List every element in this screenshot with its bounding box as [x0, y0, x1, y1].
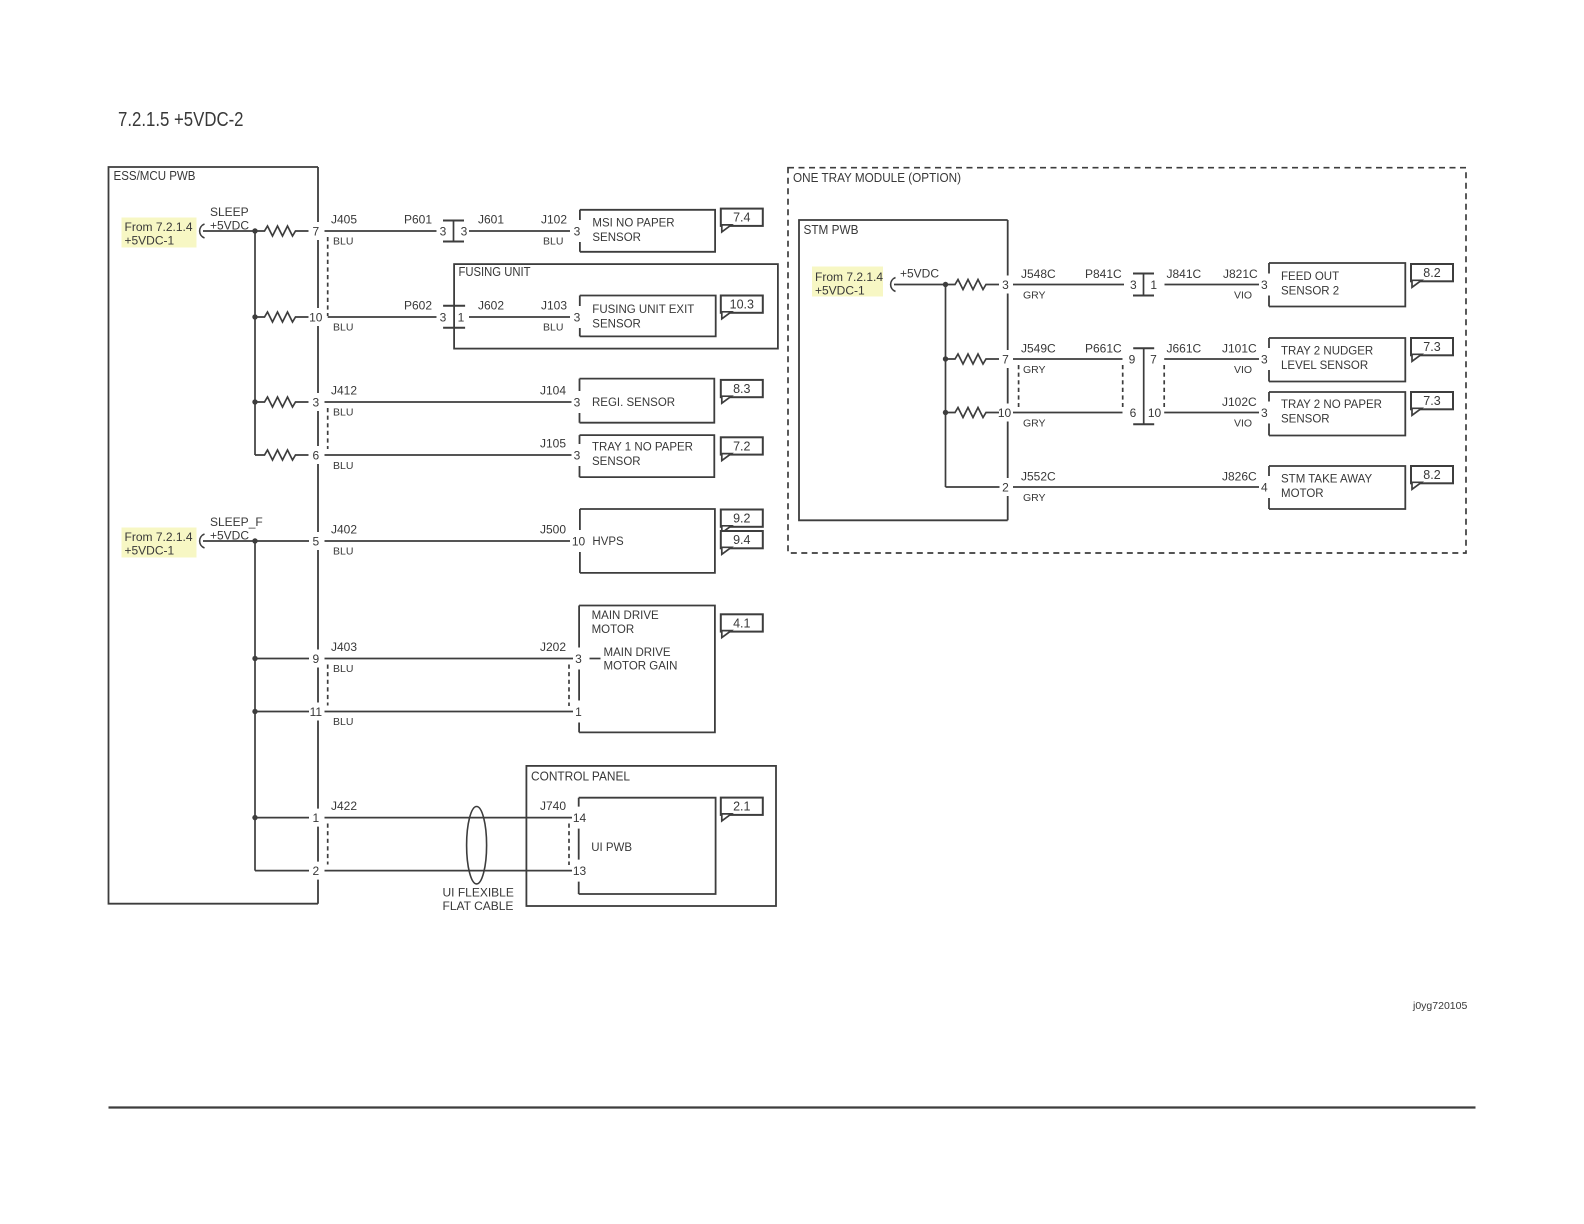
- TRAY 2 NO PAPER SENSOR box: [1269, 392, 1405, 436]
- svg-text:3: 3: [574, 448, 581, 462]
- svg-text:TRAY 2 NO PAPER: TRAY 2 NO PAPER: [1281, 399, 1382, 411]
- svg-text:2.1: 2.1: [733, 800, 750, 814]
- svg-text:SENSOR: SENSOR: [592, 232, 641, 244]
- svg-text:j0yg720105: j0yg720105: [1412, 1000, 1467, 1012]
- svg-text:TRAY 2 NUDGER: TRAY 2 NUDGER: [1281, 346, 1373, 358]
- svg-text:UI PWB: UI PWB: [591, 842, 632, 854]
- wire J403 to J202 pin3: [325, 658, 574, 660]
- junction node row10: [252, 314, 257, 319]
- svg-text:7.4: 7.4: [733, 211, 750, 225]
- svg-text:GRY: GRY: [1023, 364, 1046, 376]
- svg-text:MOTOR: MOTOR: [592, 624, 635, 636]
- resistor row pin7: [255, 226, 309, 236]
- svg-text:7: 7: [1150, 352, 1157, 366]
- cable dashed J549C right: [1122, 365, 1124, 407]
- svg-text:3: 3: [440, 310, 447, 324]
- wire STM feed: [894, 284, 946, 286]
- svg-text:3: 3: [574, 395, 581, 409]
- svg-text:J104: J104: [540, 384, 566, 398]
- highlight From 7.2.1.4 +5VDC-1 (right): [812, 267, 883, 297]
- svg-text:10: 10: [998, 406, 1012, 420]
- svg-text:7.2: 7.2: [733, 439, 750, 453]
- svg-text:3: 3: [440, 224, 447, 238]
- svg-text:3: 3: [1261, 406, 1268, 420]
- reference flag 7.4: [721, 209, 763, 226]
- TRAY 1 NO PAPER SENSOR box: [580, 435, 715, 477]
- svg-text:10.3: 10.3: [730, 298, 754, 312]
- highlight From 7.2.1.4 +5VDC-1 (middle): [122, 528, 197, 558]
- svg-text:9: 9: [1129, 352, 1136, 366]
- svg-text:J403: J403: [331, 640, 357, 654]
- wire trunk corner to pin2: [255, 870, 309, 872]
- junction node STM row10: [943, 410, 948, 415]
- svg-text:P602: P602: [404, 299, 432, 313]
- wire J402 to J500: [325, 540, 571, 542]
- svg-text:FUSING UNIT: FUSING UNIT: [459, 265, 531, 279]
- MSI NO PAPER SENSOR box: [580, 210, 715, 252]
- FUSING UNIT EXIT SENSOR box: [580, 296, 716, 337]
- svg-text:P601: P601: [404, 213, 432, 227]
- cable dashed J403 left: [327, 665, 329, 706]
- svg-text:3: 3: [1130, 278, 1137, 292]
- ONE TRAY MODULE (OPTION) dashed box: [788, 168, 1466, 553]
- svg-text:6: 6: [1130, 406, 1137, 420]
- CONTROL PANEL box: [526, 766, 776, 906]
- off-page hook (STM +5VDC): [891, 278, 896, 292]
- svg-text:J661C: J661C: [1167, 342, 1202, 356]
- svg-text:J602: J602: [478, 299, 504, 313]
- svg-text:GRY: GRY: [1023, 290, 1046, 302]
- svg-text:9.4: 9.4: [733, 533, 750, 547]
- trunk wire vertical STM: [945, 285, 947, 488]
- resistor STM row pin7: [946, 354, 1000, 364]
- wire J661C to J101C: [1164, 358, 1259, 360]
- off-page hook (SLEEP +5VDC): [200, 224, 205, 238]
- reference flag 9.4: [721, 531, 763, 548]
- ESS/MCU PWB box: [109, 167, 319, 904]
- svg-text:J101C: J101C: [1222, 342, 1257, 356]
- wire pin2 to J740 pin13: [325, 870, 573, 872]
- svg-text:2: 2: [1002, 480, 1009, 494]
- svg-text:J402: J402: [331, 523, 357, 537]
- wire pin10 to P661C: [1013, 412, 1123, 414]
- svg-text:From 7.2.1.4: From 7.2.1.4: [125, 220, 193, 234]
- svg-text:J548C: J548C: [1021, 267, 1056, 281]
- svg-text:VIO: VIO: [1234, 290, 1252, 302]
- cable dashed J405 pair: [327, 237, 329, 316]
- svg-text:STM PWB: STM PWB: [804, 223, 859, 237]
- svg-text:+5VDC-1: +5VDC-1: [125, 544, 175, 558]
- off-page hook (SLEEP_F): [200, 534, 205, 548]
- cable dashed J661C right: [1163, 365, 1165, 407]
- junction node row7: [252, 228, 257, 233]
- svg-text:MOTOR: MOTOR: [1281, 488, 1324, 500]
- svg-text:TRAY 1 NO PAPER: TRAY 1 NO PAPER: [592, 442, 693, 454]
- UI PWB box: [579, 798, 716, 894]
- UI flexible flat cable ellipse: [467, 807, 487, 884]
- svg-text:3: 3: [575, 652, 582, 666]
- cable dashed J412 pair: [327, 408, 329, 449]
- svg-text:HVPS: HVPS: [592, 536, 624, 548]
- svg-text:5: 5: [312, 534, 319, 548]
- svg-text:J552C: J552C: [1021, 470, 1056, 484]
- svg-text:J821C: J821C: [1223, 267, 1258, 281]
- svg-text:SLEEP: SLEEP: [210, 205, 249, 219]
- svg-text:CONTROL PANEL: CONTROL PANEL: [531, 770, 630, 784]
- reference flag 4.1: [721, 614, 763, 631]
- svg-text:9: 9: [312, 652, 319, 666]
- FEED OUT SENSOR 2 box: [1269, 263, 1405, 307]
- svg-text:ESS/MCU PWB: ESS/MCU PWB: [114, 169, 196, 183]
- wire pin10 to P602: [328, 316, 437, 318]
- svg-text:MAIN DRIVE: MAIN DRIVE: [604, 647, 671, 659]
- reference flag 8.2 top: [1411, 264, 1453, 281]
- junction node row5: [252, 538, 257, 543]
- connector P601/J601: [453, 221, 455, 242]
- svg-text:J422: J422: [331, 799, 357, 813]
- svg-text:8.2: 8.2: [1423, 266, 1440, 280]
- svg-text:1: 1: [1150, 278, 1157, 292]
- wire J552C to J826C: [1013, 486, 1259, 488]
- svg-text:UI FLEXIBLE: UI FLEXIBLE: [443, 886, 514, 900]
- wire J549C to P661C: [1013, 358, 1123, 360]
- svg-text:SENSOR: SENSOR: [592, 456, 641, 468]
- wire SLEEP_F feed to pin5: [203, 540, 309, 542]
- junction node STM row7: [943, 356, 948, 361]
- svg-text:REGI. SENSOR: REGI. SENSOR: [592, 397, 675, 409]
- trunk wire vertical 1: [254, 231, 256, 455]
- svg-text:J103: J103: [541, 299, 567, 313]
- svg-text:From 7.2.1.4: From 7.2.1.4: [125, 530, 193, 544]
- svg-text:8.2: 8.2: [1423, 468, 1440, 482]
- svg-text:GRY: GRY: [1023, 418, 1046, 430]
- svg-text:STM TAKE AWAY: STM TAKE AWAY: [1281, 474, 1372, 486]
- svg-text:3: 3: [574, 224, 581, 238]
- svg-text:J601: J601: [478, 213, 504, 227]
- reference flag 9.2: [721, 510, 763, 527]
- svg-text:J102C: J102C: [1222, 395, 1257, 409]
- svg-text:BLU: BLU: [333, 663, 353, 675]
- svg-text:9.2: 9.2: [733, 512, 750, 526]
- resistor row pin10: [255, 312, 309, 322]
- junction node row1: [252, 815, 257, 820]
- svg-text:1: 1: [575, 705, 582, 719]
- TRAY 2 NUDGER LEVEL SENSOR box: [1269, 338, 1405, 382]
- junction node row9: [252, 656, 257, 661]
- resistor row pin3: [255, 397, 309, 407]
- svg-text:10: 10: [309, 310, 323, 324]
- svg-text:BLU: BLU: [543, 322, 563, 334]
- svg-text:3: 3: [1002, 278, 1009, 292]
- svg-text:3: 3: [1261, 278, 1268, 292]
- svg-text:8.3: 8.3: [733, 382, 750, 396]
- junction node STM row3: [943, 282, 948, 287]
- connector P602/J602: [443, 305, 465, 307]
- wire SLEEP feed: [203, 230, 255, 232]
- wire trunk to pin1: [255, 817, 309, 819]
- svg-text:7: 7: [1002, 352, 1009, 366]
- svg-text:J549C: J549C: [1021, 342, 1056, 356]
- svg-text:J105: J105: [540, 437, 566, 451]
- wire J601 to J102: [469, 230, 570, 232]
- svg-text:FLAT CABLE: FLAT CABLE: [443, 899, 514, 913]
- svg-text:MOTOR GAIN: MOTOR GAIN: [604, 661, 678, 673]
- reference flag 7.3 upper: [1411, 338, 1453, 355]
- svg-text:MSI NO PAPER: MSI NO PAPER: [592, 218, 674, 230]
- reference flag 7.3 lower: [1411, 392, 1453, 409]
- svg-text:3: 3: [1261, 352, 1268, 366]
- wire J548C to P841C: [1013, 284, 1124, 286]
- svg-text:SENSOR: SENSOR: [1281, 414, 1330, 426]
- reference flag 10.3: [721, 296, 763, 313]
- reference flag 8.2 bottom: [1411, 466, 1453, 483]
- svg-text:VIO: VIO: [1234, 364, 1252, 376]
- footer rule: [109, 1106, 1476, 1108]
- STM TAKE AWAY MOTOR box: [1269, 466, 1405, 509]
- svg-text:14: 14: [573, 811, 587, 825]
- svg-text:BLU: BLU: [333, 546, 353, 558]
- svg-text:J740: J740: [540, 799, 566, 813]
- resistor STM row pin3: [946, 280, 1000, 290]
- trunk wire vertical 2: [254, 541, 256, 871]
- connector P841C/J841C: [1143, 274, 1145, 296]
- svg-text:2: 2: [312, 864, 319, 878]
- svg-text:BLU: BLU: [543, 236, 563, 248]
- svg-text:7: 7: [312, 224, 319, 238]
- wire pin11 to J202 pin1: [325, 711, 574, 713]
- connector P661C/J661C: [1143, 348, 1145, 424]
- svg-text:J405: J405: [331, 213, 357, 227]
- cable dashed J403 right: [568, 665, 570, 707]
- svg-text:3: 3: [312, 395, 319, 409]
- tick main drive motor gain: [590, 658, 601, 660]
- svg-text:3: 3: [461, 224, 468, 238]
- highlight From 7.2.1.4 +5VDC-1 (top): [122, 218, 197, 248]
- svg-text:10: 10: [1148, 406, 1162, 420]
- svg-text:SLEEP_F: SLEEP_F: [210, 515, 263, 529]
- wire trunk to pin11: [255, 711, 309, 713]
- svg-text:BLU: BLU: [333, 236, 353, 248]
- svg-text:13: 13: [573, 864, 587, 878]
- cable dashed J422 right: [568, 824, 570, 866]
- junction node row3: [252, 399, 257, 404]
- junction node row11: [252, 709, 257, 714]
- svg-text:1: 1: [312, 811, 319, 825]
- svg-text:MAIN DRIVE: MAIN DRIVE: [592, 610, 659, 622]
- svg-text:J500: J500: [540, 523, 566, 537]
- wire trunk corner to pin2 STM: [946, 486, 1000, 488]
- svg-text:11: 11: [310, 705, 323, 719]
- STM PWB box: [799, 220, 1008, 520]
- MAIN DRIVE MOTOR box: [579, 606, 715, 733]
- svg-text:BLU: BLU: [333, 460, 353, 472]
- cable dashed J422 left: [327, 824, 329, 865]
- svg-text:P661C: P661C: [1085, 342, 1122, 356]
- svg-text:7.3: 7.3: [1423, 394, 1440, 408]
- svg-text:From 7.2.1.4: From 7.2.1.4: [815, 270, 883, 284]
- svg-text:J826C: J826C: [1222, 470, 1257, 484]
- svg-text:J202: J202: [540, 640, 566, 654]
- FUSING UNIT box: [454, 264, 778, 349]
- svg-text:ONE TRAY MODULE (OPTION): ONE TRAY MODULE (OPTION): [793, 171, 961, 185]
- wire trunk to pin9: [255, 658, 309, 660]
- svg-text:10: 10: [572, 534, 586, 548]
- svg-text:SENSOR 2: SENSOR 2: [1281, 286, 1339, 298]
- reference flag 8.3: [721, 380, 763, 397]
- reference flag 2.1: [721, 798, 763, 815]
- HVPS box: [580, 509, 715, 573]
- svg-text:FEED OUT: FEED OUT: [1281, 271, 1339, 283]
- svg-text:J412: J412: [331, 384, 357, 398]
- svg-text:1: 1: [458, 310, 465, 324]
- svg-text:BLU: BLU: [333, 322, 353, 334]
- wire J841C to J821C: [1165, 284, 1260, 286]
- svg-text:J102: J102: [541, 213, 567, 227]
- svg-text:P841C: P841C: [1085, 267, 1122, 281]
- resistor row pin6: [255, 450, 309, 460]
- svg-text:7.2.1.5 +5VDC-2: 7.2.1.5 +5VDC-2: [118, 108, 244, 131]
- svg-text:3: 3: [574, 310, 581, 324]
- svg-text:7.3: 7.3: [1423, 340, 1440, 354]
- wire J602 to J103: [469, 316, 570, 318]
- svg-text:J841C: J841C: [1167, 267, 1202, 281]
- cable dashed J549C left: [1018, 365, 1020, 407]
- svg-text:+5VDC: +5VDC: [900, 267, 939, 281]
- svg-text:FUSING UNIT EXIT: FUSING UNIT EXIT: [592, 304, 694, 316]
- svg-text:6: 6: [312, 448, 319, 462]
- wire pin6 to J105: [325, 454, 572, 456]
- svg-text:BLU: BLU: [333, 407, 353, 419]
- svg-text:SENSOR: SENSOR: [592, 319, 641, 331]
- svg-text:4: 4: [1261, 480, 1268, 494]
- wire J412 to J104: [325, 401, 572, 403]
- wire J405 pin7 to P601: [325, 230, 437, 232]
- svg-text:+5VDC-1: +5VDC-1: [125, 234, 175, 248]
- svg-text:GRY: GRY: [1023, 492, 1046, 504]
- REGI. SENSOR box: [580, 379, 715, 423]
- svg-text:4.1: 4.1: [733, 616, 750, 630]
- svg-text:LEVEL SENSOR: LEVEL SENSOR: [1281, 360, 1368, 372]
- wire J661C to J102C: [1164, 412, 1259, 414]
- svg-text:BLU: BLU: [333, 716, 353, 728]
- wire J422 to J740 pin14: [325, 817, 573, 819]
- resistor STM row pin10: [946, 408, 1000, 418]
- reference flag 7.2: [721, 437, 763, 454]
- svg-text:VIO: VIO: [1234, 418, 1252, 430]
- svg-text:+5VDC-1: +5VDC-1: [815, 284, 865, 298]
